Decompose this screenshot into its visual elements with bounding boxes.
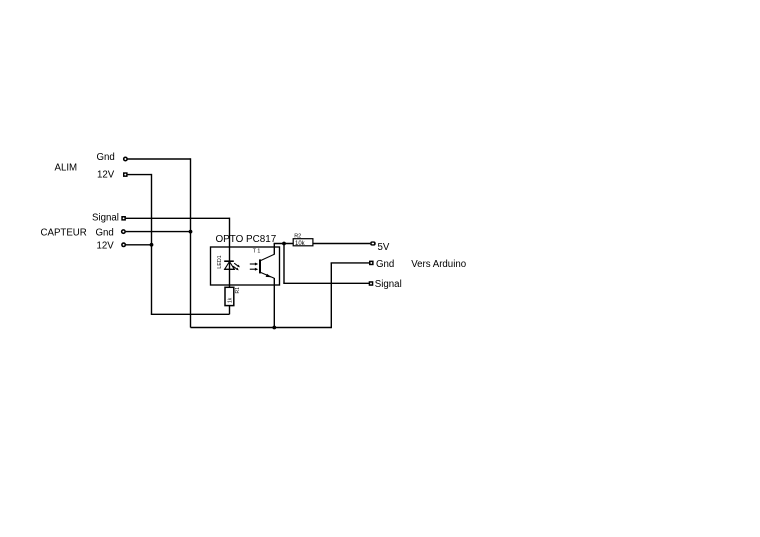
svg-text:LED1: LED1 — [217, 255, 223, 268]
transistor T1 emitter diagonal — [261, 272, 275, 278]
svg-text:ALIM: ALIM — [55, 162, 78, 173]
svg-text:12V: 12V — [97, 170, 115, 181]
op-to-coupler body U1 OPTO PC817 — [211, 247, 280, 285]
junction emitter / Gnd rail — [272, 326, 276, 330]
junction collector / signal out — [282, 242, 286, 246]
wire ALIM 12V vertical down to 12V rail — [151, 174, 153, 314]
svg-text:Gnd: Gnd — [96, 227, 114, 238]
terminal ALIM Gnd — [123, 157, 128, 162]
terminal CAPTEUR Gnd — [121, 229, 126, 234]
svg-text:10k: 10k — [295, 241, 306, 247]
transistor T1 emitter arrowhead — [266, 274, 272, 278]
wire 12V rail bottom horizontal — [151, 313, 230, 315]
wire R2 to 5V terminal — [313, 243, 370, 245]
terminal CAPTEUR 12V — [121, 242, 126, 247]
svg-text:Signal: Signal — [375, 279, 402, 290]
svg-text:5V: 5V — [378, 242, 390, 253]
terminal ALIM 12V — [123, 172, 128, 177]
LED LED1 inside opto: cathode bar — [224, 260, 234, 262]
LED LED1 triangle — [225, 262, 235, 270]
transistor T1 base light arrow 1 — [250, 263, 258, 266]
wire ALIM 12V horizontal — [128, 174, 152, 176]
svg-text:Vers Arduino: Vers Arduino — [411, 259, 466, 270]
transistor T1 base light arrow 2 — [250, 268, 258, 271]
svg-text:Signal: Signal — [92, 213, 119, 224]
svg-text:OPTO PC817: OPTO PC817 — [216, 234, 277, 245]
LED LED1 base line — [224, 268, 235, 270]
svg-text:12V: 12V — [97, 241, 115, 252]
wire emitter vertical down — [273, 278, 275, 328]
wire signal out horizontal to terminal — [283, 282, 369, 284]
LED emission arrow 2 — [233, 266, 239, 270]
junction CAPTEUR Gnd / ALIM Gnd — [189, 230, 193, 234]
junction CAPTEUR 12V / ALIM 12V — [150, 243, 154, 247]
wire Gnd rail bottom horizontal — [191, 327, 332, 329]
wire CAPTEUR Gnd to junction — [126, 231, 191, 233]
wire CAPTEUR Signal horizontal — [126, 217, 230, 219]
svg-text:Gnd: Gnd — [97, 152, 115, 163]
wire CAPTEUR Signal vertical into LED anode — [229, 218, 231, 288]
transistor T1 collector diagonal — [261, 254, 275, 260]
terminal Gnd out — [369, 261, 374, 266]
svg-text:Gnd: Gnd — [376, 259, 394, 270]
terminal 5V out — [370, 241, 376, 245]
wire Gnd to Arduino horizontal — [331, 262, 369, 264]
wire R1 bottom stub — [229, 305, 231, 314]
wire ALIM Gnd vertical down to Gnd rail — [190, 158, 192, 327]
transistor T1 bar — [259, 259, 261, 273]
wire ALIM Gnd horizontal — [128, 158, 191, 160]
wire Gnd rail vertical up — [330, 263, 332, 328]
terminal Signal out — [369, 281, 374, 286]
LED emission arrow 1 — [234, 263, 240, 267]
resistor R1 body — [225, 287, 234, 305]
svg-text:1k: 1k — [228, 297, 234, 303]
svg-text:R1: R1 — [235, 287, 241, 294]
terminal CAPTEUR Signal — [121, 216, 126, 221]
wire signal out vertical — [283, 244, 285, 284]
svg-text:CAPTEUR: CAPTEUR — [41, 228, 87, 239]
svg-text:R2: R2 — [294, 234, 301, 240]
wire collector to R2 — [274, 243, 294, 245]
svg-text:T 1: T 1 — [253, 249, 261, 255]
wire collector vertical up — [273, 244, 275, 255]
resistor R2 body — [293, 239, 313, 246]
wire CAPTEUR 12V to junction — [126, 244, 152, 246]
